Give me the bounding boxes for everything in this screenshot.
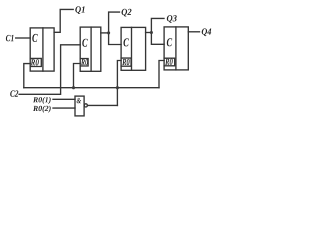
flip-flop U3 outer box — [121, 27, 146, 70]
flip-flop U2 divider — [90, 27, 92, 71]
wire Q2 riser and branch to U3 clock — [109, 12, 122, 44]
wire R0(1) input — [53, 98, 75, 100]
wire R0(2) input — [53, 107, 75, 109]
flip-flop U4 outer box — [164, 27, 188, 70]
label R0 in U4 — [165, 59, 173, 65]
label Q1 — [75, 6, 84, 14]
label C1 — [6, 35, 14, 41]
wire C2 riser to U2 clock — [19, 45, 80, 95]
flip-flop U3 divider — [131, 27, 133, 70]
flip-flop U3 R0 sub-box — [121, 58, 131, 66]
junction dot U2 R0 feed on reset bus — [72, 86, 75, 89]
label C in U4 — [167, 38, 172, 46]
label R0 in U1 — [31, 59, 39, 65]
junction dot Q3 node — [150, 31, 153, 34]
wire C1 input — [16, 37, 31, 39]
label & in NAND gate — [77, 98, 82, 103]
wire U3 R0 feed / NAND output riser — [117, 61, 121, 106]
wire Q1 stub and riser to label — [54, 9, 73, 32]
label Q3 — [167, 15, 177, 23]
wire NAND output — [88, 104, 118, 106]
flip-flop U2 R0 sub-box — [80, 59, 88, 67]
flip-flop U4 divider — [175, 27, 177, 70]
label C2 — [10, 90, 18, 96]
flip-flop U1 outer box — [30, 28, 54, 71]
wire Q2 stub — [101, 32, 109, 34]
wire Q3 stub — [146, 32, 152, 34]
flip-flop U2 outer box — [80, 27, 101, 71]
NAND gate DD1 box — [75, 96, 84, 116]
wire U1 R0 feed — [24, 64, 30, 88]
NAND output inversion bubble — [84, 104, 87, 107]
label C in U1 — [32, 34, 37, 42]
label Q4 — [202, 28, 212, 36]
wire U4 R0 feed — [159, 61, 164, 88]
label R0(2) — [33, 106, 51, 113]
label Q2 — [122, 9, 132, 17]
junction dot NAND riser on reset bus — [116, 86, 119, 89]
label R0 in U3 — [122, 59, 129, 65]
wire Q3 riser and branch to U4 clock — [151, 18, 164, 44]
flip-flop U4 R0 sub-box — [164, 58, 175, 66]
flip-flop U1 R0 sub-box — [30, 58, 41, 66]
wire U2 R0 feed — [74, 64, 81, 88]
flip-flop U1 divider — [42, 28, 44, 71]
label R0(1) — [33, 97, 51, 104]
wire reset bus — [24, 87, 159, 89]
label C in U2 — [82, 39, 87, 47]
label C in U3 — [124, 38, 129, 46]
label R0 in U2 — [81, 59, 88, 65]
junction dot Q2 node — [107, 31, 110, 34]
wire Q4 output — [188, 31, 199, 33]
